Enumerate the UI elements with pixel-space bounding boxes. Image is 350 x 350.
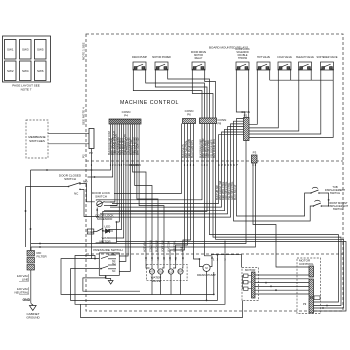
svg-text:P1: P1 xyxy=(244,114,248,118)
wire P1 staircase 3 left xyxy=(96,124,244,217)
wire left vertical A xyxy=(30,170,32,244)
svg-text:NOTE 7: NOTE 7 xyxy=(21,88,32,92)
svg-text:COLD VLV: COLD VLV xyxy=(149,240,153,252)
wire door closed switch NO to door lock switch xyxy=(82,184,95,202)
wire K1 right pin to P8 xyxy=(146,73,205,119)
wire P3 pin to motor control top xyxy=(253,163,309,267)
svg-text:FILTER: FILTER xyxy=(37,255,48,259)
svg-text:CONTROL: CONTROL xyxy=(299,262,314,266)
connector CONN P4 strip xyxy=(109,119,141,124)
wire left feed upper xyxy=(31,169,92,171)
svg-text:NO: NO xyxy=(112,253,116,256)
valve coil hot xyxy=(149,269,154,274)
motor connector bar xyxy=(252,272,256,298)
relay K7 BLEACH VALVE xyxy=(296,56,314,73)
wire P4 pin5 to door lock solenoid xyxy=(118,124,120,222)
svg-text:CAM: CAM xyxy=(88,230,94,234)
motor assembly box xyxy=(242,268,259,301)
wire P1 staircase 7 left xyxy=(112,135,244,204)
pin numbers under P6 P8 row xyxy=(184,164,239,167)
wire tub switch common xyxy=(325,193,329,206)
caption PAGE LAYOUT SEE NOTE 7 xyxy=(12,84,40,92)
connector P9 (membrane) xyxy=(89,129,94,149)
wire labels P6 harness (rotated) xyxy=(181,139,194,158)
wire P8 pin to wax motor xyxy=(103,124,207,232)
wire P4 pin14 to water valve xyxy=(139,124,164,265)
svg-text:P9: P9 xyxy=(303,302,307,306)
svg-text:NO: NO xyxy=(83,180,88,184)
label cabinet ground xyxy=(26,312,40,320)
membrane ribbon wires xyxy=(48,133,89,135)
svg-text:HOT: HOT xyxy=(149,271,155,274)
page layout switch grid SW1-SW6 xyxy=(3,36,51,82)
connector CONN P8 strip xyxy=(200,118,217,124)
wire P2 connector drop xyxy=(91,149,93,259)
svg-text:BLCH VLV: BLCH VLV xyxy=(155,240,159,252)
connector P3 strip xyxy=(252,151,258,164)
svg-text:GND: GND xyxy=(23,298,31,302)
svg-text:RELAY: RELAY xyxy=(195,57,203,60)
wire motor to motor control 1 xyxy=(255,275,309,294)
svg-text:SW3: SW3 xyxy=(22,48,29,52)
water valve assembly box xyxy=(146,264,187,283)
wire P4 pin3 to door lock switch xyxy=(110,124,115,202)
wire P1 staircase 5 left xyxy=(104,129,244,210)
drain pump motor xyxy=(197,264,216,277)
wire left vertical B xyxy=(25,187,27,248)
valve coil cold xyxy=(158,269,163,274)
wire K6 left pin to P1 fan xyxy=(249,73,278,128)
wire P4 pin4 to door lock switch xyxy=(110,124,117,206)
pin ticks under y254 xyxy=(145,259,226,262)
svg-text:PRESSURE SWITCH: PRESSURE SWITCH xyxy=(93,248,122,252)
wire P6 pin1 to water valve xyxy=(170,124,185,265)
svg-text:MOTOR POWER: MOTOR POWER xyxy=(152,56,171,59)
svg-text:SW6: SW6 xyxy=(37,69,44,73)
wax motor xyxy=(96,231,117,243)
svg-text:SW2: SW2 xyxy=(7,69,14,73)
svg-text:MACHINE CONTROL: MACHINE CONTROL xyxy=(120,100,179,106)
motor winding 3 xyxy=(244,287,249,290)
bottom wire loop 2 xyxy=(71,255,218,301)
wire K8 left pin to P1 fan xyxy=(249,73,321,135)
svg-text:LINE: LINE xyxy=(180,246,184,252)
svg-text:BLU PUMP RTN: BLU PUMP RTN xyxy=(190,140,194,158)
small aux rect xyxy=(314,296,320,300)
svg-text:COLD VALVE: COLD VALVE xyxy=(277,56,292,59)
wire K7 right pin to neutral bus xyxy=(310,73,312,81)
wire motor feed xyxy=(211,255,242,268)
wire P1 staircase 2 to front displacement switch xyxy=(234,121,314,221)
connector CONN P1 label xyxy=(241,110,250,118)
valve coil softener xyxy=(178,269,183,274)
connector CONN P8 label xyxy=(218,118,227,126)
wire labels P1 bundle (rotated) xyxy=(215,180,237,200)
bottom loop wire 4 xyxy=(83,278,140,291)
relay K6 COLD VALVE xyxy=(277,56,292,73)
dashed separator line y254 xyxy=(86,253,343,255)
wire K4 left pin to P1 xyxy=(236,73,245,118)
door lock switch symbol xyxy=(92,191,117,217)
pressure switch box xyxy=(93,248,122,275)
wire P6 pin4 to drain pump xyxy=(194,124,200,265)
wire valve coil drops xyxy=(146,265,183,295)
wire P4 pin12 to water valve xyxy=(135,124,152,265)
cam switch box xyxy=(87,229,103,235)
svg-text:NEUTRAL: NEUTRAL xyxy=(14,291,28,295)
wire filter internal xyxy=(30,244,33,303)
outer dashed machine border xyxy=(86,34,343,311)
motor control connector bar upper xyxy=(309,266,314,277)
wire labels P8 harness (rotated) xyxy=(199,138,217,158)
motor control connector bar lower xyxy=(309,298,314,313)
svg-text:SW5: SW5 xyxy=(37,48,44,52)
dashed separator line y161 xyxy=(86,160,343,162)
svg-text:DRAIN PUMP: DRAIN PUMP xyxy=(197,273,216,277)
wire P1 staircase 4 left xyxy=(100,127,244,214)
connector CONN P6 label xyxy=(185,109,194,117)
wire P1 staircase 6 left xyxy=(110,132,244,207)
wire K5 right pin to neutral bus xyxy=(269,73,271,81)
svg-text:GROUND: GROUND xyxy=(26,316,40,320)
relay K2 MOTOR POWER xyxy=(152,56,171,73)
pressure switch ground arrow xyxy=(106,275,113,284)
svg-text:NO: NO xyxy=(112,263,116,266)
connector CONN P1 strip xyxy=(244,118,250,141)
svg-text:SWITCH: SWITCH xyxy=(95,195,107,199)
svg-text:P8: P8 xyxy=(218,122,222,126)
svg-text:MOTOR: MOTOR xyxy=(99,239,111,243)
svg-text:LED: LED xyxy=(105,225,112,229)
wire K8 right pin bus drop to P1 xyxy=(249,73,333,138)
svg-text:BLCH: BLCH xyxy=(168,271,175,274)
svg-text:SWITCH: SWITCH xyxy=(330,191,340,195)
pin numbers under P4 row xyxy=(110,164,141,167)
wire P4 pin11 to water valve xyxy=(133,124,147,265)
relay K1 DRAIN PUMP xyxy=(132,56,147,73)
valve coil bleach xyxy=(168,269,173,274)
door closed switch symbol xyxy=(59,174,88,196)
wire door closed switch NC drop xyxy=(82,190,99,217)
tub displacement switch xyxy=(310,185,345,195)
wire P1 staircase 1 to tub displacement switch xyxy=(237,119,311,217)
svg-text:SOFTENER VALVE: SOFTENER VALVE xyxy=(316,56,337,59)
wire P6 pin2 to water valve xyxy=(176,124,188,265)
wire P4 pin13 to water valve xyxy=(137,124,158,265)
svg-text:NC: NC xyxy=(112,270,116,273)
svg-text:SWITCHES: SWITCHES xyxy=(29,139,45,143)
RFI line filter xyxy=(27,251,47,271)
membrane switches box xyxy=(26,120,48,158)
svg-text:THROW: THROW xyxy=(238,57,248,60)
svg-text:VALVE: VALVE xyxy=(151,279,160,283)
svg-text:VLV COM: VLV COM xyxy=(167,241,171,252)
svg-text:M: M xyxy=(205,266,207,270)
svg-text:NOTE 1 SEE: NOTE 1 SEE xyxy=(82,42,86,60)
bottom outer loop wire xyxy=(81,301,243,318)
wire labels P4 harness (rotated) xyxy=(107,131,140,155)
wire P8 pin to drain pump xyxy=(205,124,213,265)
motor control connector bar mid xyxy=(309,279,314,297)
svg-text:COLD: COLD xyxy=(157,271,164,274)
wire P8 nested right 1 to motor control xyxy=(210,124,339,303)
svg-text:MOTOR: MOTOR xyxy=(245,268,255,272)
wire K7 left pin to P1 fan xyxy=(249,73,299,132)
svg-text:SWITCH: SWITCH xyxy=(333,207,343,211)
svg-text:BLU LINE FLT: BLU LINE FLT xyxy=(233,184,237,200)
svg-text:HOT VALVE: HOT VALVE xyxy=(257,56,270,59)
svg-text:LINE: LINE xyxy=(22,278,29,282)
cabinet ground arrow xyxy=(29,302,36,311)
wire K3 right pin to P8 xyxy=(205,73,216,119)
motor winding 1 xyxy=(244,274,249,277)
wire K4 right pin to P1 xyxy=(248,73,250,118)
svg-text:SOFT: SOFT xyxy=(177,271,184,274)
svg-text:P2: P2 xyxy=(82,154,86,158)
svg-text:BLEACH VALVE: BLEACH VALVE xyxy=(296,56,314,59)
wire P3 pin to line filter xyxy=(31,163,256,247)
wire P4 pin10 to pressure switch xyxy=(119,124,130,271)
svg-text:SWITCH: SWITCH xyxy=(64,177,76,181)
svg-text:SW4: SW4 xyxy=(22,69,29,73)
wire P4 pin9 to pressure switch xyxy=(119,124,128,256)
motor winding 2 xyxy=(244,281,249,284)
wire labels valve feeds (rotated) xyxy=(143,240,184,252)
svg-text:NEUTRAL: NEUTRAL xyxy=(172,240,176,252)
front displacement switch xyxy=(313,200,349,211)
wire P4 pin8 to pressure switch xyxy=(119,124,126,261)
svg-text:SOFT VLV: SOFT VLV xyxy=(161,240,165,252)
LED D1 xyxy=(102,225,113,234)
label 120 VAC LINE xyxy=(17,274,30,282)
wire P8 pin to door lock switch xyxy=(96,124,202,201)
wire P4 pin1 to P2 connector xyxy=(92,124,111,170)
drain pump return drop xyxy=(206,271,208,300)
wire K5 left pin to P1 fan xyxy=(249,73,257,125)
wire K6 right pin to neutral bus xyxy=(290,73,292,81)
wire K2 right pin to P8 xyxy=(168,73,210,119)
wire K1 left pin to P8 xyxy=(133,73,202,119)
svg-text:DRAIN PUMP: DRAIN PUMP xyxy=(132,56,147,59)
neutral bus xyxy=(270,79,334,81)
door lock solenoid xyxy=(95,214,119,239)
wire P4 pin6 to wax motor xyxy=(108,124,122,230)
wire P6 pin3 to water valve xyxy=(183,124,191,265)
wire P1 bottom pin to line filter xyxy=(31,141,246,244)
wire P4 pin7 to wax motor xyxy=(108,124,124,238)
relay K5 HOT VALVE xyxy=(257,56,270,73)
svg-text:P3: P3 xyxy=(253,151,257,155)
wire P6 aux to left xyxy=(114,124,182,194)
svg-text:BRN DOOR MTR: BRN DOOR MTR xyxy=(212,139,216,158)
wire P8 nested right 2 to motor control xyxy=(213,124,341,306)
wire K3 left pin to P8 xyxy=(192,73,213,119)
svg-text:ORN MTR PWR: ORN MTR PWR xyxy=(206,140,210,158)
relay K3 DOOR DRIVE MOTOR xyxy=(191,51,207,73)
wire long bus to motor control xyxy=(116,242,346,312)
svg-text:P4: P4 xyxy=(124,114,128,118)
svg-text:WHT SOFT VLV: WHT SOFT VLV xyxy=(136,137,140,155)
wire P4 pin2 left border xyxy=(88,124,113,177)
left wire arrow marks xyxy=(25,210,32,230)
bottom wire loop 3 xyxy=(75,242,225,305)
connector CONN P4 label xyxy=(122,110,131,118)
label 120 VAC NEUTRAL xyxy=(14,287,29,295)
svg-text:SOLENOID: SOLENOID xyxy=(97,217,113,221)
motor control box xyxy=(297,258,321,314)
bottom wire loop 1 xyxy=(61,259,214,295)
svg-text:SW1: SW1 xyxy=(7,48,14,52)
svg-text:P6: P6 xyxy=(187,113,191,117)
pin numbers P2 xyxy=(91,164,257,167)
relay K4 DOOR LOCK SOLENOID xyxy=(235,48,250,73)
wire K2 left pin to P8 xyxy=(155,73,207,119)
svg-text:SEE NOTE 4: SEE NOTE 4 xyxy=(82,107,86,125)
svg-text:HOT VLV: HOT VLV xyxy=(143,241,147,252)
relay K8 SOFTENER VALVE xyxy=(316,56,337,73)
connector CONN P6 strip xyxy=(183,119,196,124)
wire left feed door closed switch xyxy=(26,186,69,188)
wire P8 nested right 3 to motor control xyxy=(216,124,344,309)
